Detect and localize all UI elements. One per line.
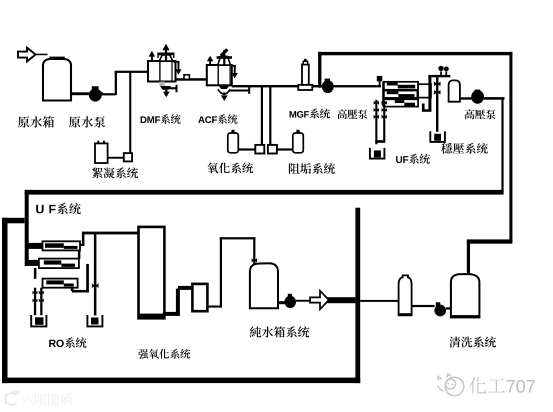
bottle 阻垢系统 (293, 133, 304, 153)
thick riser to top line (318, 52, 321, 88)
vessel ACF top valve cluster (217, 48, 232, 65)
label 原水箱 (18, 116, 54, 128)
staircase pipe (163, 312, 178, 316)
vessel ACF body (207, 65, 232, 85)
tank 稳压系统 (449, 80, 460, 101)
thick left edge (2, 218, 8, 383)
vessel DMF right bypass with down arrow (173, 61, 179, 63)
drain cup left (31, 315, 46, 326)
RO membrane tube B (39, 259, 79, 269)
cleaning line corner (467, 239, 513, 243)
label 纯水箱系统 (250, 326, 309, 337)
wire tank to pump2 (460, 97, 472, 99)
thick bottom edge of top box (25, 190, 504, 195)
box right edge (355, 208, 360, 383)
tank 原水箱 (43, 57, 71, 101)
thick top line (318, 52, 512, 55)
filter MGF (298, 85, 312, 90)
column 强氧化 tall box (139, 227, 165, 318)
wire pump4 to tank (446, 307, 452, 309)
module left manifold (382, 82, 385, 107)
wire tank to pump3 (278, 301, 286, 304)
RO permeate riser (82, 233, 85, 246)
membrane tube 2 (384, 91, 418, 98)
label 阻垢系统 (289, 163, 335, 174)
label DMF系统 (141, 114, 181, 124)
pump 3 (288, 294, 292, 299)
drain branch mid (94, 234, 97, 315)
label 原水泵 (69, 116, 105, 128)
double ball valve (440, 71, 442, 75)
RO drain lines (34, 288, 36, 316)
wire elbow to 絮凝 bottle (107, 157, 125, 159)
wire DMF to ACF (176, 78, 208, 81)
pump 高压泵 1 (325, 79, 330, 83)
drain line with valves (436, 77, 438, 132)
valve block on module feed (377, 76, 383, 82)
column 强氧化 small box (192, 284, 207, 311)
wire small box out (207, 306, 222, 308)
bottle 絮凝系统 (95, 143, 108, 163)
wire inlet to tank (35, 54, 48, 56)
drain cup UF (370, 148, 385, 159)
membrane tube 1 (384, 82, 418, 90)
wire pump riser (101, 93, 116, 95)
module right manifold box (418, 84, 431, 97)
label RO系统 (49, 337, 86, 348)
wire branch to 絮凝 (129, 72, 131, 154)
membrane tube 3 (384, 99, 418, 106)
pump2 drop line inner (501, 99, 503, 193)
cleaning line drop to tank (467, 241, 470, 275)
elbow block antiscalant (268, 145, 277, 154)
wire riser to tank 稳压 (428, 75, 450, 77)
drain cup 稳压 (430, 131, 445, 142)
label 高压泵2 (465, 109, 496, 119)
bottle 氧化系统 (228, 133, 239, 153)
wire filter to pump4 (412, 305, 435, 307)
pump 原水泵 (89, 86, 103, 101)
vessel DMF inner columns (159, 61, 160, 81)
thick bottom edge (2, 378, 360, 384)
pump 4 (436, 302, 441, 306)
label 强氧化系统 (138, 349, 190, 359)
vessel ACF bottom drain cluster (218, 85, 250, 101)
watermark cat icon (438, 374, 464, 396)
recirc right line outer (509, 52, 512, 242)
thick outlet bar (327, 297, 355, 303)
wire tee to oxidation elbow (261, 87, 263, 146)
label UF系统 top (396, 154, 430, 164)
wire pump3 to arrow (296, 300, 311, 302)
label 氧化系统 (208, 162, 254, 173)
outlet block arrow (310, 291, 329, 310)
label watermark bottom-left (22, 394, 73, 406)
watermark bottom-left mark (6, 391, 19, 405)
vessel DMF top valve cluster (157, 44, 174, 61)
elbow block 絮凝 (124, 153, 132, 161)
notch block on DMF-ACF wire (184, 75, 189, 80)
tank 纯水箱 (250, 263, 278, 308)
label 高压泵1 (337, 109, 367, 119)
tank 清洗系统 (451, 274, 480, 317)
label 清洗系统 (449, 337, 496, 348)
thick left drop to RO (25, 190, 29, 266)
wire tank to raw pump (70, 92, 90, 95)
valve on tank inlet (252, 258, 257, 262)
RO interconnect right A-B (78, 250, 81, 259)
wire pump1 to UF module (334, 85, 382, 87)
RO interconnect left B-C (34, 268, 37, 279)
label 稳压系统 (441, 143, 488, 154)
wire ACF to MGF (232, 85, 299, 87)
filter 清洗 (399, 275, 412, 315)
wire elbow to 阻垢 bottle (277, 148, 293, 150)
RO feed stub B (28, 260, 39, 266)
label 絮凝系统 (92, 167, 138, 178)
RO feed stub A (28, 243, 43, 249)
wire to cleaning filter (360, 300, 399, 302)
RO membrane tube A (43, 241, 81, 250)
wire elbow to 氧化 bottle (238, 148, 257, 150)
module outlet to riser (422, 104, 425, 111)
label MGF系统 (290, 108, 330, 118)
wire MGF to pump (312, 85, 322, 87)
vessel ACF left vent arrow (209, 60, 211, 65)
label watermark 化工707 (469, 377, 535, 394)
thick pipe jog left (2, 218, 25, 224)
wire tee to antiscalant elbow (269, 87, 271, 146)
module drain lines (375, 100, 377, 145)
RO membrane tube C (43, 279, 78, 288)
permeate line to oxidizer (82, 232, 139, 235)
wire pump2 to right edge (484, 97, 505, 100)
elbow block oxidation (255, 145, 264, 154)
riser to top line (428, 75, 431, 111)
RO step pipe right (86, 264, 89, 293)
vessel ACF right bypass with down arrow (232, 65, 236, 67)
wire to DMF inlet (115, 71, 150, 73)
label ACF系统 (198, 114, 237, 124)
label U F系统 big (36, 203, 81, 215)
wire up-over to pure tank (220, 237, 222, 307)
vessel DMF body (148, 61, 176, 82)
pump 高压泵 2 (475, 90, 481, 94)
drain cup right (87, 315, 102, 326)
vessel DMF left vent arrow (151, 56, 153, 62)
vessel DMF bottom drain cluster (159, 82, 177, 98)
inlet feed block arrow (18, 48, 36, 62)
vessel ACF inner columns (218, 65, 219, 85)
